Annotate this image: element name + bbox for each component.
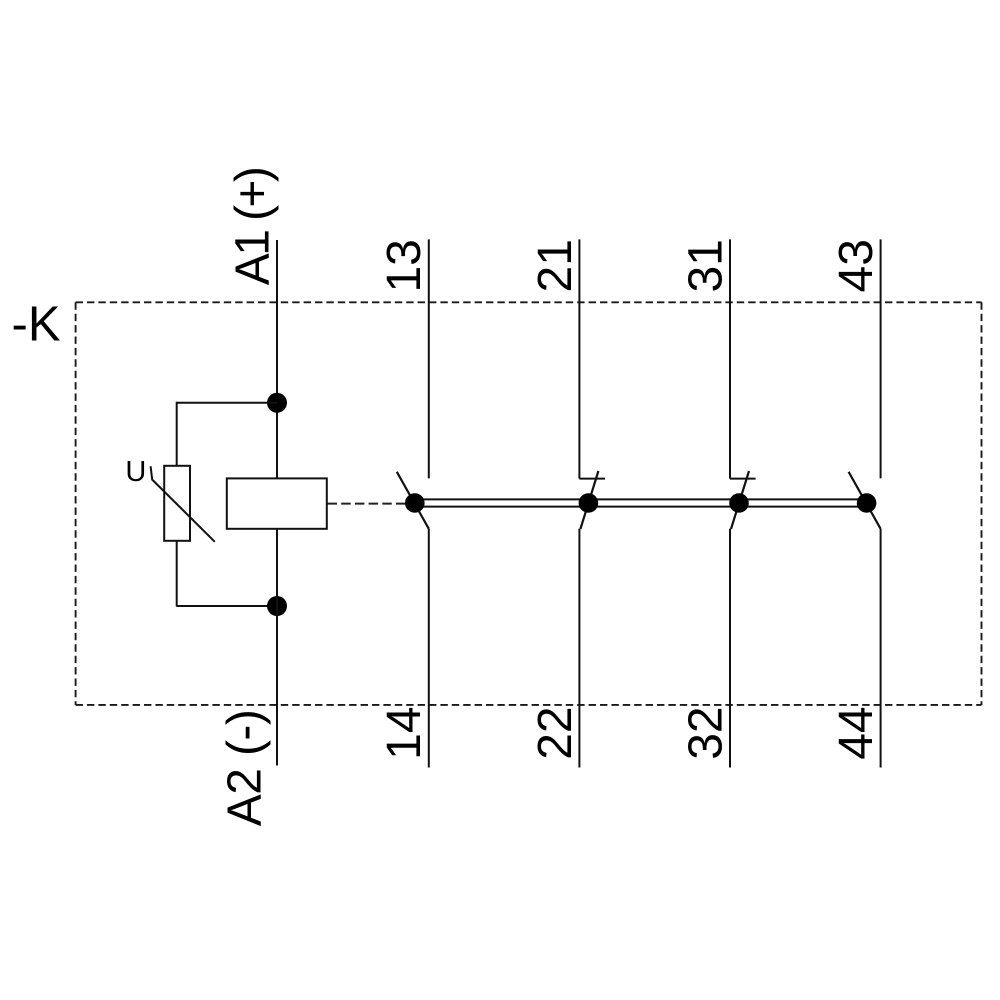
NC contact 31-32: terminal wire 32 — [729, 529, 731, 768]
wire: branch top horizontal to varistor — [177, 402, 277, 404]
svg-text:31: 31 — [679, 239, 732, 292]
svg-text:44: 44 — [830, 706, 883, 759]
node: junction dot top (A1 / varistor branch) — [267, 393, 287, 413]
terminal label 14 — [378, 706, 431, 759]
wire: varistor bottom lead — [176, 541, 178, 607]
NC contact 21-22: actuator node dot — [579, 493, 599, 513]
terminal label 13 — [378, 239, 431, 292]
NC contact 21-22: terminal wire 22 — [578, 529, 580, 768]
NO contact 43-44: actuator node dot — [857, 493, 877, 513]
NO contact 43-44: fixed terminal wire 43 — [880, 239, 882, 478]
svg-text:14: 14 — [378, 706, 431, 759]
wire A2 (coil bottom lead) — [276, 529, 278, 766]
svg-text:43: 43 — [830, 239, 883, 292]
varistor U (surge suppressor body) — [164, 466, 190, 541]
wire A1 (coil top lead) — [276, 240, 278, 478]
svg-text:-K: -K — [12, 297, 61, 351]
NC contact 21-22: fixed terminal wire 21 — [578, 239, 580, 478]
NO contact 13-14: terminal wire 14 — [428, 529, 430, 768]
terminal label 43 — [830, 239, 883, 292]
label -K — [12, 297, 61, 351]
label U (varistor) — [125, 456, 146, 488]
NC contact 31-32: fixed terminal wire 31 — [729, 239, 731, 478]
NC contact 31-32: moving blade — [731, 471, 749, 529]
wire: branch bottom horizontal to A2 — [177, 605, 277, 607]
terminal label A2 (-) — [219, 710, 272, 826]
NC contact 31-32: seat bar — [730, 478, 756, 480]
NO contact 43-44: moving blade — [849, 472, 881, 529]
wire: varistor top lead — [176, 402, 178, 466]
svg-text:13: 13 — [378, 239, 431, 292]
terminal label 32 — [679, 706, 732, 759]
node: junction dot bottom (A2 / varistor branch) — [267, 596, 287, 616]
NO contact 43-44: terminal wire 44 — [880, 529, 882, 768]
terminal label 22 — [529, 706, 582, 759]
svg-text:U: U — [125, 456, 146, 488]
coil K (operating coil box) — [227, 478, 327, 528]
svg-text:21: 21 — [529, 239, 582, 292]
svg-text:32: 32 — [679, 706, 732, 759]
NO contact 13-14: actuator node dot — [405, 493, 425, 513]
svg-text:A2 (-): A2 (-) — [219, 710, 272, 826]
NO contact 13-14: moving blade — [397, 472, 429, 529]
terminal label A1 (+) — [227, 168, 280, 285]
terminal label 31 — [679, 239, 732, 292]
terminal label 21 — [529, 239, 582, 292]
NC contact 21-22: moving blade — [580, 471, 598, 529]
varistor diagonal stroke with leader to label U — [151, 466, 215, 542]
terminal label 44 — [830, 706, 883, 759]
NC contact 31-32: actuator node dot — [729, 493, 749, 513]
mechanical link (dashed) coil to contact actuator — [328, 503, 406, 505]
contactor enclosure dashed outline -K — [76, 302, 982, 705]
svg-text:A1 (+): A1 (+) — [227, 168, 280, 285]
actuator bar (double line linking all contacts) — [415, 499, 867, 506]
svg-text:22: 22 — [529, 706, 582, 759]
NC contact 21-22: seat bar — [579, 478, 605, 480]
NO contact 13-14: fixed terminal wire 13 — [428, 239, 430, 478]
